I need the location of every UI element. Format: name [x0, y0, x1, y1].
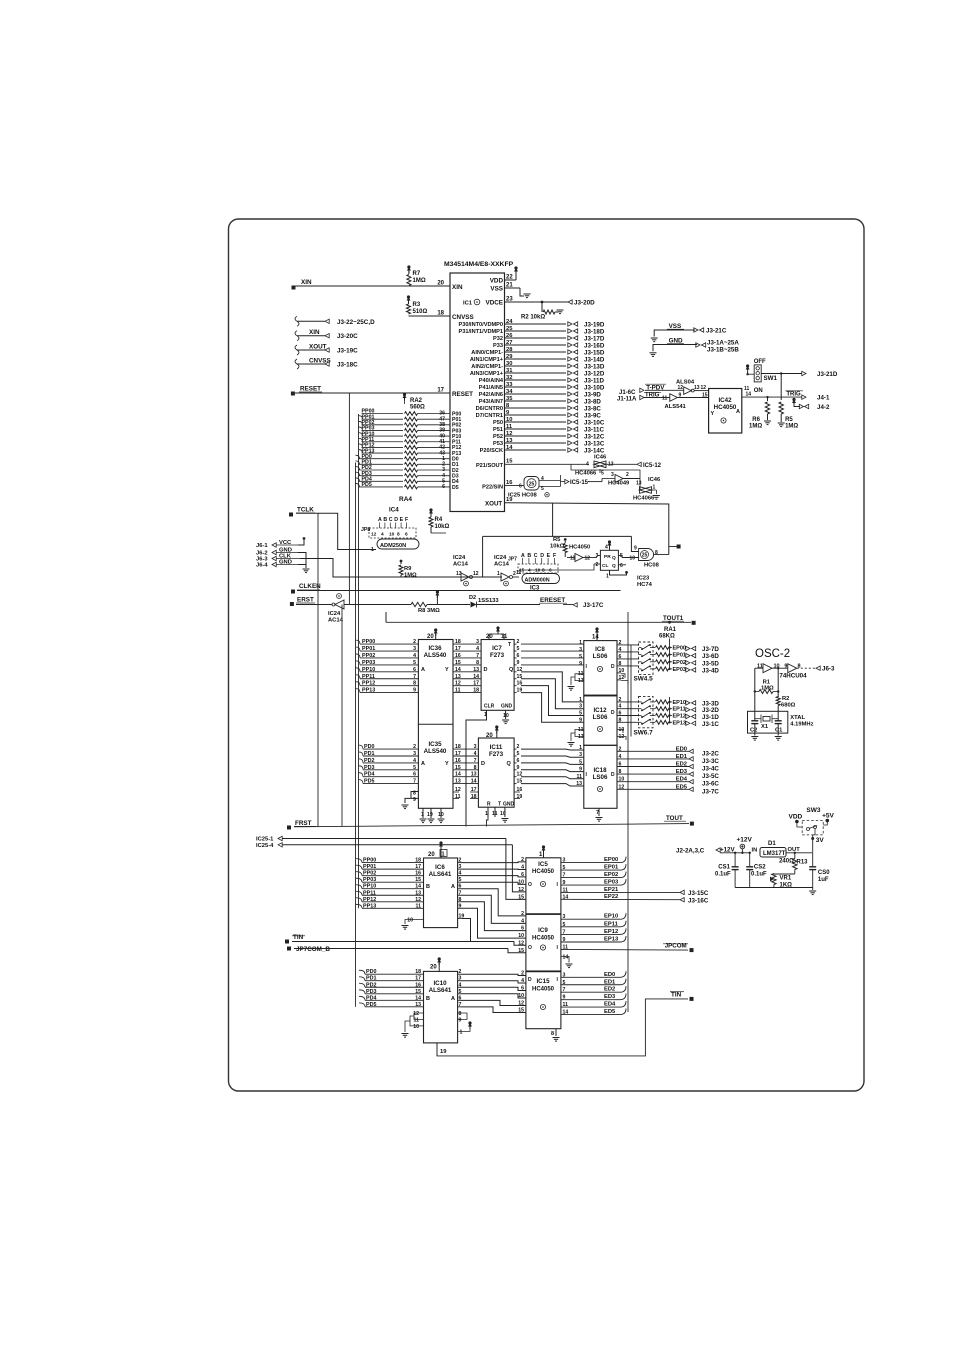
- svg-text:D: D: [394, 517, 398, 523]
- svg-text:10: 10: [506, 417, 512, 423]
- svg-text:19: 19: [440, 1049, 447, 1055]
- svg-text:11: 11: [563, 887, 569, 893]
- svg-text:IC42: IC42: [718, 397, 732, 404]
- svg-text:A: A: [421, 667, 425, 673]
- svg-text:18: 18: [455, 639, 461, 645]
- svg-text:P43/AIN7: P43/AIN7: [479, 399, 503, 405]
- svg-text:IC18: IC18: [593, 767, 607, 774]
- svg-text:12: 12: [473, 571, 479, 577]
- svg-text:3: 3: [563, 914, 566, 920]
- svg-text:+12V: +12V: [737, 837, 753, 844]
- svg-text:EP13: EP13: [673, 720, 686, 726]
- svg-text:J3-10D: J3-10D: [584, 385, 605, 392]
- svg-text:AIN2/CMP1-: AIN2/CMP1-: [471, 364, 503, 370]
- svg-text:RA1: RA1: [664, 627, 677, 633]
- svg-text:6: 6: [405, 532, 408, 538]
- svg-text:D: D: [611, 772, 615, 778]
- svg-text:5: 5: [579, 654, 582, 660]
- svg-text:SW3: SW3: [806, 807, 820, 814]
- svg-text:EP03: EP03: [673, 667, 686, 673]
- IC1 M34514M4 MCU body: [444, 261, 514, 512]
- svg-text:ED4: ED4: [676, 777, 688, 783]
- svg-text:PP00: PP00: [363, 858, 376, 864]
- svg-text:A: A: [378, 517, 382, 523]
- svg-text:J3-18D: J3-18D: [584, 329, 605, 336]
- svg-text:27: 27: [506, 340, 512, 346]
- IC36 to IC7 wires: [453, 639, 481, 694]
- svg-text:12: 12: [619, 734, 625, 740]
- IC11 pin 20 power: [486, 725, 499, 739]
- svg-text:F273: F273: [490, 652, 505, 659]
- IC7 body: [481, 640, 514, 711]
- svg-text:3: 3: [596, 553, 599, 559]
- svg-text:7: 7: [563, 987, 566, 993]
- svg-text:8: 8: [413, 791, 416, 797]
- svg-text:VCC: VCC: [279, 540, 292, 546]
- svg-text:J4-2: J4-2: [817, 404, 830, 411]
- svg-text:J3-17C: J3-17C: [583, 602, 604, 609]
- svg-text:J3-4D: J3-4D: [702, 667, 719, 674]
- resistor R1 1M: [755, 680, 778, 694]
- svg-text:HC4066: HC4066: [633, 496, 655, 502]
- IC4 ADM250N dip-switch block: [361, 507, 419, 554]
- wire IC7 to IC8: [521, 644, 584, 665]
- svg-text:17: 17: [415, 976, 421, 982]
- wire IC25-4: [256, 843, 526, 892]
- svg-text:T: T: [498, 802, 501, 808]
- wire P21/SOUT: [476, 459, 589, 470]
- svg-text:4: 4: [586, 462, 589, 468]
- svg-text:15: 15: [415, 989, 421, 995]
- svg-text:9: 9: [517, 660, 520, 666]
- svg-text:1: 1: [579, 640, 582, 646]
- svg-text:B: B: [383, 517, 387, 523]
- IC36/IC35 body: [418, 640, 453, 809]
- svg-text:P52: P52: [493, 434, 503, 440]
- svg-text:P50: P50: [493, 420, 503, 426]
- svg-text:3: 3: [563, 858, 566, 864]
- svg-text:EP01: EP01: [673, 653, 686, 659]
- svg-text:2: 2: [517, 639, 520, 645]
- svg-text:CL: CL: [602, 563, 608, 569]
- svg-text:31: 31: [506, 368, 513, 374]
- IC1 pin 17 RESET: [291, 386, 473, 399]
- svg-text:4: 4: [381, 532, 384, 538]
- IC1 pin 33 P41/AIN5 wire to J3-10D: [479, 382, 605, 392]
- svg-text:4: 4: [619, 754, 622, 760]
- svg-text:R13: R13: [797, 860, 809, 866]
- svg-text:ED3: ED3: [676, 769, 688, 775]
- svg-text:J3-4C: J3-4C: [702, 766, 719, 773]
- svg-text:J3-14D: J3-14D: [584, 357, 605, 364]
- TCLK net: [289, 507, 376, 550]
- svg-text:J2-2A,3,C: J2-2A,3,C: [676, 848, 705, 855]
- capacitor CS2: [746, 852, 767, 888]
- svg-text:J3-19C: J3-19C: [337, 348, 358, 355]
- svg-text:IC5-12: IC5-12: [643, 463, 662, 469]
- svg-text:J3-14C: J3-14C: [584, 448, 605, 455]
- IC10 input rows: [359, 969, 424, 1008]
- IC1 pin 10 P50 wire to J3-10C: [493, 417, 605, 427]
- svg-text:J3-17D: J3-17D: [584, 336, 605, 343]
- svg-text:PD4: PD4: [364, 772, 375, 778]
- svg-text:9: 9: [563, 880, 566, 886]
- svg-text:I: I: [586, 772, 588, 778]
- svg-text:E: E: [547, 553, 551, 559]
- svg-text:13: 13: [455, 779, 461, 785]
- svg-text:16: 16: [415, 982, 421, 988]
- wire vertical bus E TCLK: [317, 513, 319, 826]
- svg-text:20: 20: [486, 733, 493, 739]
- svg-text:Y: Y: [445, 667, 449, 673]
- svg-text:ED5: ED5: [676, 784, 688, 790]
- svg-text:IC25-1: IC25-1: [256, 837, 274, 843]
- svg-text:ED4: ED4: [604, 1002, 616, 1008]
- wire XOUT label: [485, 497, 513, 508]
- svg-text:AC14: AC14: [453, 562, 469, 568]
- svg-text:4: 4: [528, 568, 531, 574]
- wire J3-20D: [568, 300, 595, 307]
- resistor R9 1M: [399, 560, 417, 579]
- resistor R5b 1M: [778, 402, 799, 430]
- svg-text:2: 2: [413, 744, 416, 750]
- IC1 pin 31 AIN3/CMP1+ wire to J3-12D: [470, 368, 605, 378]
- svg-text:J3-5D: J3-5D: [702, 660, 719, 667]
- svg-text:30: 30: [506, 361, 512, 367]
- svg-text:XTAL: XTAL: [790, 715, 805, 721]
- svg-text:16: 16: [415, 871, 421, 877]
- svg-text:4: 4: [619, 704, 622, 710]
- svg-text:TCLK: TCLK: [297, 507, 314, 514]
- IC7 bottom CLR GND: [484, 704, 513, 724]
- svg-text:CNVSS: CNVSS: [309, 358, 331, 365]
- svg-text:R2 10kΩ: R2 10kΩ: [521, 315, 545, 321]
- power arrow SW1: [746, 364, 755, 375]
- svg-text:IC36: IC36: [428, 645, 442, 652]
- svg-text:O: O: [528, 882, 532, 888]
- svg-text:5: 5: [517, 751, 520, 757]
- svg-text:12: 12: [701, 385, 707, 391]
- IC18 ED0-ED5 rows: [617, 746, 719, 795]
- svg-text:PD5: PD5: [364, 779, 375, 785]
- svg-text:1: 1: [460, 1030, 463, 1036]
- svg-text:1SS133: 1SS133: [478, 598, 499, 604]
- svg-text:6: 6: [521, 926, 524, 932]
- wire EP bus vertical: [627, 612, 629, 1012]
- svg-text:ED0: ED0: [604, 972, 615, 978]
- svg-text:8: 8: [619, 769, 622, 775]
- svg-text:R2: R2: [782, 696, 789, 702]
- wire JP7COM_B: [287, 946, 526, 953]
- svg-text:C: C: [534, 553, 538, 559]
- IC1 pin 35 P43/AIN7 wire to J3-8D: [479, 396, 602, 406]
- svg-text:PP03: PP03: [363, 877, 376, 883]
- svg-text:SW4.5: SW4.5: [634, 676, 654, 683]
- svg-text:HC4049: HC4049: [608, 481, 630, 487]
- svg-text:14: 14: [415, 995, 421, 1001]
- wire TRIG row right: [742, 386, 830, 402]
- svg-text:74HCU04: 74HCU04: [779, 673, 807, 680]
- svg-text:IC8: IC8: [595, 646, 605, 653]
- svg-text:HC4050: HC4050: [532, 869, 555, 875]
- svg-text:ALS541: ALS541: [665, 404, 687, 410]
- svg-text:14: 14: [471, 779, 477, 785]
- buffer HC4049: [588, 472, 640, 487]
- svg-text:XIN: XIN: [452, 284, 463, 291]
- svg-text:GND: GND: [503, 802, 515, 808]
- svg-text:13: 13: [694, 385, 700, 391]
- svg-text:R5: R5: [553, 537, 561, 543]
- svg-text:7: 7: [474, 758, 477, 764]
- CLKEN net: [291, 583, 621, 594]
- svg-text:EP22: EP22: [604, 894, 618, 900]
- svg-text:ALS641: ALS641: [429, 871, 452, 878]
- svg-text:J3-20D: J3-20D: [574, 300, 595, 307]
- svg-text:P33: P33: [493, 343, 503, 349]
- switch SW1: [754, 359, 778, 394]
- svg-text:19: 19: [506, 497, 513, 503]
- svg-text:3: 3: [413, 646, 416, 652]
- svg-text:9: 9: [579, 661, 582, 667]
- svg-text:P22/SIN: P22/SIN: [482, 484, 503, 490]
- svg-text:1MΩ: 1MΩ: [761, 686, 774, 692]
- transmission gate IC46 a: [575, 455, 662, 477]
- IC9 input pin labels: [518, 911, 524, 954]
- svg-text:4: 4: [476, 646, 479, 652]
- svg-text:26: 26: [506, 333, 513, 339]
- resistor R13 240: [779, 852, 808, 874]
- svg-text:16: 16: [506, 480, 513, 486]
- svg-text:TRIG: TRIG: [786, 392, 801, 398]
- inverter IC24 AC14 on ERST: [296, 594, 411, 624]
- svg-text:TIN: TIN: [293, 934, 304, 941]
- svg-text:VSS: VSS: [490, 286, 503, 293]
- IC35 labels: [421, 741, 449, 767]
- svg-text:J3-15D: J3-15D: [584, 350, 605, 357]
- IC1 pin 13 P53 wire to J3-13C: [493, 438, 605, 448]
- svg-text:11: 11: [662, 396, 668, 402]
- IC42 body: [709, 389, 742, 434]
- resistor R8 3M: [411, 590, 470, 614]
- svg-text:HC08: HC08: [644, 563, 660, 569]
- svg-text:J3-11D: J3-11D: [584, 378, 604, 385]
- svg-text:CS1: CS1: [718, 865, 730, 871]
- svg-text:PP01: PP01: [362, 646, 375, 652]
- svg-text:B: B: [426, 996, 430, 1002]
- svg-text:22: 22: [506, 275, 513, 281]
- svg-text:EP12: EP12: [604, 929, 618, 935]
- svg-text:PD0: PD0: [366, 969, 377, 975]
- svg-text:A: A: [421, 761, 425, 767]
- wire osc left: [754, 668, 756, 713]
- svg-text:PD5: PD5: [366, 1002, 377, 1008]
- svg-text:D: D: [611, 664, 615, 670]
- svg-text:17: 17: [415, 864, 421, 870]
- wire IC25-1: [256, 836, 526, 899]
- svg-text:1MΩ: 1MΩ: [404, 573, 417, 579]
- svg-text:13: 13: [415, 1002, 421, 1008]
- IC1 pin 27 P33 wire to J3-16D: [493, 340, 605, 350]
- svg-text:6: 6: [619, 711, 622, 717]
- IC8 output pins: [617, 640, 624, 681]
- svg-text:18: 18: [455, 744, 461, 750]
- IC10 pins 8 9 1: [458, 1011, 472, 1036]
- inverter 74HCU04 a: [755, 664, 788, 673]
- svg-text:IC24: IC24: [453, 555, 466, 561]
- connector J6-1..4: [256, 540, 300, 569]
- svg-text:4: 4: [541, 476, 544, 482]
- svg-text:IC46: IC46: [648, 477, 661, 483]
- svg-text:PP10: PP10: [362, 667, 375, 673]
- svg-text:11: 11: [578, 727, 584, 733]
- svg-text:PD1: PD1: [366, 976, 377, 982]
- svg-text:20: 20: [437, 281, 444, 287]
- svg-text:EP10: EP10: [604, 914, 618, 920]
- svg-text:3: 3: [579, 752, 582, 758]
- resistor network RA2/RA4 rows: [356, 409, 462, 491]
- svg-text:14: 14: [563, 954, 569, 960]
- IC18 pin 7 ground: [596, 808, 603, 821]
- svg-text:11: 11: [744, 386, 750, 392]
- svg-text:18: 18: [473, 688, 479, 694]
- svg-text:IC9: IC9: [538, 927, 548, 934]
- svg-text:9: 9: [517, 765, 520, 771]
- svg-text:J1-6C: J1-6C: [619, 390, 636, 396]
- svg-text:XOUT: XOUT: [309, 344, 327, 351]
- resistor R4 10k: [429, 508, 450, 533]
- wire ERESET: [539, 597, 604, 609]
- IC9 JPCOM row: [561, 943, 694, 953]
- svg-text:OSC-2: OSC-2: [755, 648, 790, 660]
- svg-text:3: 3: [413, 751, 416, 757]
- svg-text:3: 3: [579, 704, 582, 710]
- svg-text:9: 9: [413, 797, 416, 803]
- IC35 bottom pins: [420, 808, 445, 822]
- svg-text:18: 18: [415, 858, 421, 864]
- svg-text:15: 15: [506, 459, 513, 465]
- svg-text:18: 18: [415, 969, 421, 975]
- svg-text:D: D: [611, 710, 615, 716]
- svg-text:EP02: EP02: [673, 660, 686, 666]
- svg-text:4.19MHz: 4.19MHz: [790, 722, 813, 728]
- wire vertical bus A RESET: [348, 393, 350, 605]
- svg-text:PP11: PP11: [363, 890, 376, 896]
- svg-text:12: 12: [415, 897, 421, 903]
- svg-text:24: 24: [506, 319, 513, 325]
- IC9 body: [526, 914, 561, 971]
- node right of HC08: [669, 545, 681, 549]
- svg-text:2: 2: [413, 639, 416, 645]
- svg-text:PD2: PD2: [364, 758, 375, 764]
- svg-text:JP7COM_B: JP7COM_B: [296, 946, 330, 953]
- svg-text:GND: GND: [501, 704, 513, 710]
- svg-text:10: 10: [619, 727, 625, 733]
- svg-text:IC10: IC10: [433, 980, 447, 987]
- svg-text:J3-7D: J3-7D: [702, 646, 719, 653]
- svg-text:P31/INT1/VDMP1: P31/INT1/VDMP1: [459, 329, 503, 335]
- wire IC6 to IC5: [461, 862, 526, 885]
- svg-text:A: A: [521, 553, 525, 559]
- inverter IC24 AC14 a: [453, 555, 479, 586]
- svg-text:8: 8: [476, 660, 479, 666]
- svg-text:J3-9C: J3-9C: [584, 413, 601, 420]
- svg-text:3V: 3V: [816, 837, 825, 844]
- IC5 EP21 row: [561, 887, 709, 897]
- svg-text:6: 6: [442, 484, 445, 490]
- IC15 input pin labels: [518, 971, 524, 1014]
- wire IC8 pins 10 12 hook: [621, 674, 628, 684]
- svg-text:510Ω: 510Ω: [413, 309, 428, 315]
- svg-text:HC4050: HC4050: [569, 545, 590, 551]
- svg-text:14: 14: [473, 674, 479, 680]
- svg-text:X1: X1: [761, 724, 769, 730]
- svg-text:OFF: OFF: [754, 359, 766, 365]
- svg-text:J3-13D: J3-13D: [584, 364, 605, 371]
- svg-text:J3-21D: J3-21D: [817, 371, 838, 378]
- RA2 label: [403, 393, 426, 411]
- svg-text:D: D: [540, 553, 544, 559]
- IC36 labels: [421, 645, 449, 673]
- svg-text:20: 20: [430, 965, 437, 971]
- svg-text:J3-11C: J3-11C: [584, 427, 604, 434]
- svg-text:Y: Y: [445, 761, 449, 767]
- svg-text:PP03: PP03: [362, 660, 375, 666]
- svg-text:15: 15: [518, 948, 524, 954]
- svg-text:J3-7C: J3-7C: [702, 788, 719, 795]
- svg-text:XIN: XIN: [301, 279, 312, 286]
- svg-text:IC23: IC23: [637, 576, 650, 582]
- svg-text:9: 9: [634, 546, 637, 552]
- svg-text:Q: Q: [612, 563, 616, 569]
- wire P21 branch down: [571, 464, 640, 478]
- svg-text:HC4050: HC4050: [532, 987, 555, 993]
- IC1 pin 30 AIN2/CMP1- wire to J3-13D: [471, 361, 605, 371]
- resistor R3 510: [407, 295, 428, 315]
- IC3 ADM000N block: [518, 553, 560, 592]
- svg-text:J1-11A: J1-11A: [617, 397, 637, 403]
- svg-text:7: 7: [476, 653, 479, 659]
- svg-text:IC7: IC7: [492, 645, 502, 652]
- svg-text:ED1: ED1: [604, 979, 616, 985]
- svg-text:4: 4: [474, 751, 477, 757]
- svg-text:20: 20: [486, 634, 493, 640]
- svg-text:EP21: EP21: [604, 887, 619, 893]
- svg-text:PP12: PP12: [363, 897, 376, 903]
- svg-text:ADM000N: ADM000N: [525, 577, 550, 583]
- svg-text:P42/AIN6: P42/AIN6: [479, 392, 503, 398]
- svg-text:25: 25: [529, 481, 535, 487]
- inverter 74HCU04 b: [784, 664, 835, 673]
- svg-text:2: 2: [521, 911, 524, 917]
- svg-text:1: 1: [442, 852, 445, 858]
- svg-text:8: 8: [459, 1011, 462, 1017]
- svg-text:15: 15: [518, 894, 524, 900]
- capacitor CS0: [809, 853, 830, 888]
- svg-text:7: 7: [413, 674, 416, 680]
- IC35 to IC11 wires: [453, 744, 478, 800]
- svg-text:IC1: IC1: [463, 301, 473, 307]
- IC6 output pins: [458, 858, 465, 920]
- svg-text:11: 11: [455, 794, 461, 800]
- svg-text:EP00: EP00: [604, 857, 618, 863]
- svg-text:A: A: [736, 409, 740, 415]
- AND gate 25 IC25: [482, 475, 560, 499]
- svg-text:PD4: PD4: [366, 995, 377, 1001]
- IC1 pin 9 D7/CNTR1 wire to J3-9C: [476, 410, 602, 420]
- resistor R2b 680: [776, 696, 795, 713]
- svg-text:Q: Q: [612, 555, 616, 561]
- svg-text:2: 2: [517, 744, 520, 750]
